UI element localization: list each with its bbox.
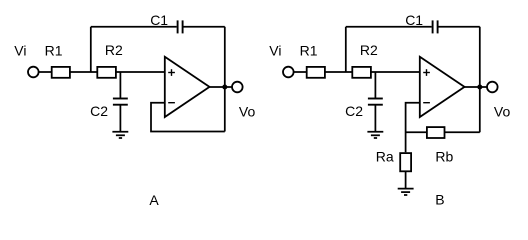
junction dot output node (A) xyxy=(222,85,227,90)
wire Rb to output vertical (B) xyxy=(445,131,480,133)
wire op-amp output (A) xyxy=(210,86,232,88)
wire C2 branch xyxy=(119,72,121,99)
op-amp U2 (B) xyxy=(420,57,465,117)
node junction R1-R2 / C1 branch xyxy=(90,27,92,72)
junction dot output node (B) xyxy=(477,85,482,90)
wire R2 to op-amp + input (B) xyxy=(371,71,420,73)
capacitor C1 (B) left plate xyxy=(432,20,434,33)
svg-text:R2: R2 xyxy=(105,42,123,58)
wire output vertical (A) xyxy=(224,27,226,132)
svg-text:R1: R1 xyxy=(300,42,318,58)
svg-text:C1: C1 xyxy=(405,12,423,28)
svg-text:C2: C2 xyxy=(345,103,363,119)
op-amp U1 + pin mark xyxy=(168,69,175,76)
capacitor C2 (B) top plate xyxy=(368,98,383,100)
op-amp U1 (A) xyxy=(165,57,210,117)
wire R2 to op-amp + input xyxy=(116,71,165,73)
wire C1 to output node xyxy=(184,26,225,28)
wire C2 to ground xyxy=(119,105,121,132)
terminal Vo (B) xyxy=(487,82,498,93)
node junction R1-R2 / C1 branch (B) xyxy=(345,27,347,72)
wire C2 to ground (B) xyxy=(374,105,376,132)
wire R1 to R2 (B) xyxy=(325,71,352,73)
svg-text:A: A xyxy=(149,192,159,208)
wire C1 to output node (B) xyxy=(439,26,480,28)
wire op-amp output (B) xyxy=(465,86,487,88)
svg-text:Vo: Vo xyxy=(239,103,256,119)
svg-text:R2: R2 xyxy=(360,42,378,58)
svg-text:C1: C1 xyxy=(150,12,168,28)
op-amp U1 - pin mark xyxy=(168,102,175,104)
capacitor C1 (B) right plate xyxy=(437,20,439,33)
terminal Vo (A) xyxy=(232,82,243,93)
svg-text:Rb: Rb xyxy=(435,148,453,164)
op-amp U2 - pin mark xyxy=(423,102,430,104)
capacitor C2 (A) bottom plate xyxy=(113,104,128,106)
svg-text:Ra: Ra xyxy=(376,148,394,164)
terminal Vi (circuit A) xyxy=(28,67,39,78)
capacitor C2 (A) top plate xyxy=(113,98,128,100)
svg-text:C2: C2 xyxy=(90,103,108,119)
svg-text:Vi: Vi xyxy=(269,42,281,58)
wire output vertical (B) xyxy=(479,27,481,132)
svg-text:Vo: Vo xyxy=(494,103,511,119)
svg-text:R1: R1 xyxy=(45,42,63,58)
wire Vi to R1 (B) xyxy=(294,71,307,73)
resistor Rb (B) xyxy=(427,127,445,138)
wire Vi to R1 xyxy=(39,71,52,73)
capacitor C1 (A) right plate xyxy=(182,20,184,33)
svg-text:B: B xyxy=(435,192,444,208)
wire - input feedback (A) xyxy=(151,103,225,132)
wire Ra to ground xyxy=(405,171,407,188)
capacitor C1 (A) left plate xyxy=(177,20,179,33)
ground under C2 (B) xyxy=(367,132,383,138)
wire C2 branch (B) xyxy=(374,72,376,99)
resistor R1 (B) xyxy=(307,67,325,78)
wire - input to Ra/Rb node (B) xyxy=(406,103,420,153)
resistor R1 (A) xyxy=(52,67,70,78)
ground (A) xyxy=(112,132,128,138)
resistor Ra (B) xyxy=(400,153,411,171)
wire node to Rb (B) xyxy=(406,131,427,133)
wire top left to C1 xyxy=(91,26,177,28)
resistor R2 (A) xyxy=(97,67,116,78)
op-amp U2 + pin mark xyxy=(423,69,430,76)
terminal Vi (circuit B) xyxy=(283,67,294,78)
svg-text:Vi: Vi xyxy=(14,42,26,58)
wire top left to C1 (B) xyxy=(346,26,432,28)
resistor R2 (B) xyxy=(352,67,371,78)
ground under Ra (B) xyxy=(398,189,414,195)
capacitor C2 (B) bottom plate xyxy=(368,104,383,106)
wire R1 to R2 xyxy=(70,71,97,73)
